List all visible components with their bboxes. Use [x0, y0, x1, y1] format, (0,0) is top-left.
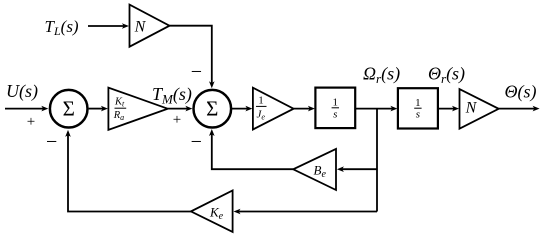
minus sign at summer S2 bottom input [191, 131, 202, 153]
summing junction S2 [194, 90, 232, 128]
gain block Ke (back-emf feedback) [191, 190, 233, 232]
svg-text:TL(s): TL(s) [45, 17, 79, 38]
wire TL(s) to gain N1 [88, 23, 129, 29]
plus sign at summer S2 left input [173, 112, 181, 128]
wire integrator I1 to integrator I2 (through node B) [355, 106, 397, 112]
svg-text:−: − [191, 61, 202, 83]
summing junction S1 [50, 90, 88, 128]
plus sign at summer S1 left input [27, 114, 35, 130]
gain block Be (damping feedback) [293, 149, 336, 190]
svg-text:1: 1 [258, 95, 264, 107]
wire node B to gain Ke (bottom feedback) [234, 209, 378, 215]
svg-text:Θ(s): Θ(s) [505, 82, 537, 103]
integrator block I1 (1/s) [315, 88, 355, 129]
wire node B to gain Be [337, 166, 377, 172]
wire summer S1 to gain Kt/Ra [89, 106, 108, 112]
svg-text:Θr(s): Θr(s) [428, 64, 465, 87]
gain block Kt/Ra [108, 88, 167, 130]
svg-text:+: + [27, 114, 35, 130]
node U(s) label [6, 81, 38, 102]
gain block N2 (output gear) [460, 89, 499, 129]
svg-text:TM(s): TM(s) [152, 84, 192, 107]
wire gain N2 to output Theta(s) [499, 106, 540, 112]
node Theta_r(s) label [428, 64, 465, 87]
svg-text:N: N [465, 100, 478, 117]
svg-text:Σ: Σ [63, 97, 75, 121]
wire gain N1 to summer S2 top [170, 26, 215, 89]
svg-text:U(s): U(s) [6, 81, 38, 102]
gain block 1/Je [253, 88, 294, 130]
svg-text:1: 1 [415, 97, 421, 109]
node TL(s) label [45, 17, 79, 38]
wire gain Be to summer S2 bottom [209, 129, 293, 169]
svg-text:N: N [134, 19, 147, 36]
wire summer S2 to gain 1/Je [232, 106, 253, 112]
svg-text:+: + [173, 112, 181, 128]
wire node B branch down (junction after I1) [376, 109, 378, 212]
integrator block I2 (1/s) [398, 88, 438, 128]
node Omega_r(s) label [363, 64, 400, 87]
minus sign at summer S2 top input [191, 61, 202, 83]
svg-text:−: − [191, 131, 202, 153]
gain block N1 (load torque path) [130, 5, 170, 47]
wire integrator I2 to gain N2 [438, 106, 459, 112]
wire gain Kt/Ra to summer S2 [168, 106, 193, 112]
svg-text:s: s [333, 108, 337, 120]
node Theta(s) output label [505, 82, 537, 103]
svg-text:Σ: Σ [206, 97, 218, 121]
wire input U(s) to summer S1 [5, 106, 48, 112]
minus sign at summer S1 bottom input [46, 131, 57, 153]
node TM(s) label [152, 84, 192, 107]
wire gain 1/Je to integrator I1 [294, 106, 315, 112]
svg-text:1: 1 [333, 96, 339, 108]
svg-text:−: − [46, 131, 57, 153]
svg-text:Ωr(s): Ωr(s) [363, 64, 400, 87]
svg-text:s: s [416, 109, 420, 121]
wire gain Ke to summer S1 bottom [65, 130, 191, 212]
